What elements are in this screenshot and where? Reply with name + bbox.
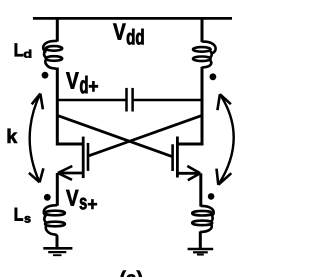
transistor M2 channel bar [176, 137, 179, 178]
coupling arc k right [218, 94, 233, 185]
Vdd rail [33, 17, 232, 20]
inductor Ld right (right drain inductor) [193, 42, 216, 68]
transistor M1 source arrow [58, 166, 73, 180]
transistor M2 source lead [177, 172, 199, 175]
gate cross-wire (left node to M2 gate) [57, 115, 173, 156]
label Ls_s [25, 216, 31, 223]
label k [8, 129, 18, 143]
polarity dot right top [210, 73, 217, 80]
transistor M1 channel bar [82, 137, 85, 179]
wire left source (M1 to Ls) [56, 173, 59, 206]
wire right bottom (Ls to ground) [199, 231, 202, 249]
inductor Ls (left source inductor) [44, 205, 65, 236]
label Vdd_V [113, 24, 125, 40]
polarity dot left top [42, 72, 49, 79]
transistor M2 source arrow [187, 166, 200, 180]
label Vdp_V [66, 72, 78, 88]
label Ld_L [15, 44, 23, 57]
label Ld_d [24, 50, 31, 58]
wire left bottom (Ls to ground) [56, 236, 59, 249]
polarity dot left bottom [44, 194, 51, 201]
label Vdd_dd [127, 29, 144, 45]
label Vdp_d [80, 76, 87, 94]
wire right source (M2 to Ls) [199, 173, 202, 206]
wire right mid (Ld to M2 drain) [177, 67, 202, 144]
label Vsp_p [88, 200, 97, 209]
label Vsp_s [80, 198, 87, 210]
inductor Ls right (right source inductor) [192, 206, 214, 232]
coupling arc k left [30, 94, 41, 183]
polarity dot right bottom [208, 193, 215, 200]
wire left mid (Ld to M1 drain) [57, 68, 83, 145]
capacitor C1 left lead [57, 99, 126, 102]
ground right [188, 248, 214, 251]
inductor Ld (left drain inductor) [43, 41, 62, 70]
wire right top (rail to Ld right) [201, 17, 204, 42]
capacitor C1 right lead [133, 99, 202, 102]
label Vsp_V [66, 190, 78, 206]
caption (a) [121, 271, 143, 277]
transistor M1 gate bar [87, 143, 90, 171]
gate cross-wire (right node to M1 gate) [88, 115, 202, 156]
label Vdp_p [89, 81, 98, 91]
transistor M1 source lead [59, 172, 83, 175]
capacitor C1 plates [125, 88, 128, 112]
transistor M2 gate bar [171, 144, 174, 171]
label Ls_L [15, 208, 23, 221]
ground left [43, 247, 72, 250]
wire left top (rail to Ld) [56, 17, 59, 42]
